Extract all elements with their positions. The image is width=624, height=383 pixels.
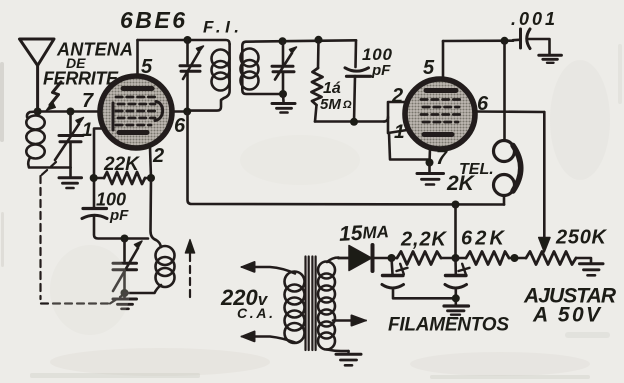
svg-text:5: 5 [423, 57, 435, 79]
tube V1 6BE6 envelope [100, 76, 172, 148]
top rail from pin5 to FI primary [138, 40, 230, 44]
dashed gang line tuning [41, 162, 130, 304]
node filter cap 1 [388, 254, 396, 262]
svg-text:pF: pF [109, 207, 129, 224]
variable capacitor C1 [55, 112, 84, 168]
coil L1 antenna coil [26, 112, 70, 168]
resistor 22K [94, 172, 152, 184]
arrow filament tap [333, 316, 366, 326]
svg-text:FILAMENTOS: FILAMENTOS [388, 315, 509, 336]
svg-text:2: 2 [152, 145, 164, 167]
svg-text:2: 2 [391, 85, 403, 107]
svg-text:62K: 62K [461, 228, 506, 250]
wire pin2 down to osc tank [151, 178, 157, 240]
svg-text:7: 7 [436, 147, 448, 169]
svg-text:22K: 22K [103, 154, 140, 175]
svg-text:2,2K: 2,2K [400, 229, 448, 251]
svg-text:1: 1 [394, 122, 405, 143]
pin 6 lead V2 [475, 110, 544, 113]
label 100 pF [362, 45, 393, 79]
capacitor .001 [513, 29, 550, 54]
coil FI secondary box [241, 40, 357, 94]
resistor 2.2K [392, 252, 456, 265]
capacitor electrolytic C+1 [382, 258, 456, 298]
node 22K right [147, 174, 155, 182]
node filter cap 2 [452, 254, 460, 262]
node osc tank [121, 235, 129, 243]
label 220V C.A. [220, 285, 273, 321]
ground filter [444, 306, 469, 318]
tube V1 internal electrodes [113, 89, 163, 133]
trimmer capacitor CT2 [272, 41, 297, 94]
pins 1,2 bracket V2 [384, 102, 430, 160]
plus sign C+1 [397, 264, 408, 274]
node .001 [501, 37, 509, 45]
node cap C1 top [67, 108, 75, 116]
svg-text:5: 5 [141, 56, 153, 78]
potentiometer 250K [526, 252, 591, 265]
arrow 220V bottom [242, 332, 255, 342]
scan noise [50, 60, 610, 376]
node 62K / 250K [511, 254, 519, 262]
svg-text:6: 6 [174, 115, 186, 137]
capacitor 100pF grid [345, 40, 371, 122]
node FI primary bottom / pin6 [183, 108, 191, 116]
coil T1 primary [253, 267, 305, 343]
wire grid leak bottom [315, 120, 384, 123]
ground 250K [580, 264, 604, 276]
antenna ANT [20, 39, 55, 112]
svg-text:1: 1 [82, 120, 93, 141]
label 1 a 5M [320, 80, 352, 113]
coil T1 secondary [318, 258, 349, 352]
capacitor electrolytic C+2 [445, 258, 467, 305]
lightning arrow to coil [46, 82, 61, 111]
pin 1 lead V1 [94, 129, 106, 208]
wire .001 node down to phones [503, 41, 506, 141]
rail V2 pin5 to .001 [443, 39, 513, 42]
label 100 pF regen [96, 190, 129, 225]
dashed arrow osc coil [185, 240, 194, 298]
svg-text:pF: pF [371, 62, 391, 79]
arrowhead pot wiper [539, 238, 550, 253]
coil FI primary [188, 44, 230, 111]
coil L2 oscillator [125, 240, 175, 293]
ground .001 [539, 55, 562, 63]
variable capacitor C2 osc [113, 239, 142, 294]
wire antenna to tube pin7 [38, 110, 101, 113]
transformer T1 core [306, 257, 316, 351]
svg-text:6: 6 [477, 93, 489, 115]
node osc bottom [121, 289, 129, 297]
ground under C1 [59, 168, 82, 189]
resistor 62K [456, 252, 527, 265]
svg-text:5M: 5M [320, 96, 341, 113]
wire pot wiper [543, 112, 546, 238]
pin 6 lead V1 [172, 110, 188, 113]
pin 2 lead V1 [150, 147, 151, 178]
ground V2 cathode [417, 163, 444, 185]
node rail / trimmer [184, 36, 192, 44]
diode D1 [339, 245, 392, 271]
node divider tap [452, 201, 460, 209]
tube V2 internal electrodes [421, 91, 461, 135]
ground FI secondary [272, 94, 295, 113]
node cap bottom [350, 118, 358, 126]
B+ feed line [188, 112, 505, 205]
tube V2 envelope [405, 79, 475, 149]
svg-text:1á: 1á [323, 80, 341, 97]
label ANTENA DE FERRITE [43, 40, 133, 89]
node 22K left [90, 174, 98, 182]
svg-text:Ω: Ω [342, 99, 352, 111]
svg-text:2K: 2K [446, 172, 476, 195]
node grid resistor top [315, 36, 323, 44]
headphones TEL 2K [494, 141, 521, 205]
plus sign C+2 [459, 264, 470, 274]
wire tap down [454, 205, 457, 259]
svg-text:FERRITE: FERRITE [43, 69, 119, 89]
node antenna/coil [34, 108, 42, 116]
node filter ground [452, 294, 460, 302]
svg-text:7: 7 [82, 90, 94, 112]
node FI secondary bottom [279, 90, 287, 98]
pin 5 lead V1 [136, 40, 139, 77]
arrow 220V top [242, 262, 255, 272]
svg-text:250K: 250K [555, 227, 608, 249]
node FI secondary top [279, 37, 287, 45]
resistor R 1-5M vertical [312, 40, 323, 122]
pin 5 lead V2 [442, 41, 445, 80]
ground T1 secondary [336, 351, 361, 365]
svg-text:A 50V: A 50V [532, 304, 602, 327]
node pin7 ground [426, 159, 434, 167]
label AJUSTAR A 50V [523, 285, 617, 327]
pin 7 lead V2 [428, 149, 431, 163]
ground osc [113, 293, 137, 309]
capacitor 100pF regen [82, 209, 148, 239]
trimmer capacitor CT1 [180, 40, 204, 112]
label TEL. 2K [446, 161, 494, 195]
